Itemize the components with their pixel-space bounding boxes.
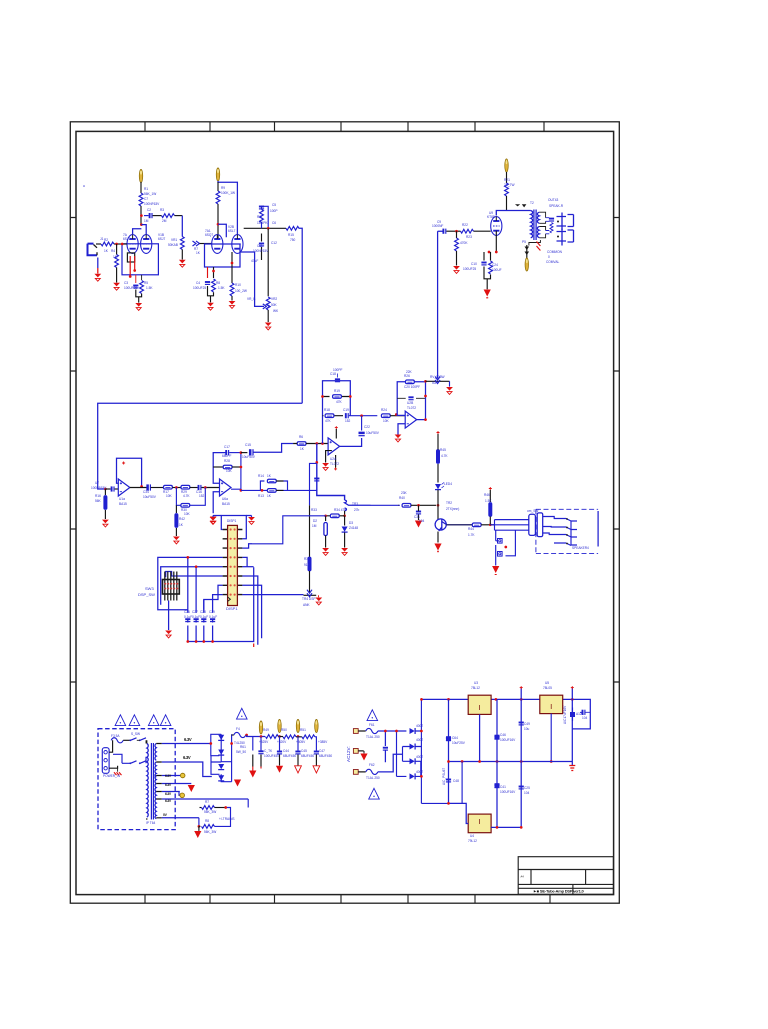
svg-text:KT88: KT88 xyxy=(487,215,495,219)
svg-text:680PF: 680PF xyxy=(222,454,231,458)
svg-text:1.7K: 1.7K xyxy=(468,533,475,537)
svg-text:S_SW: S_SW xyxy=(131,732,140,736)
svg-text:TR3: TR3 xyxy=(352,502,358,506)
svg-text:U7: U7 xyxy=(95,481,99,485)
svg-text:C44: C44 xyxy=(283,749,289,753)
svg-text:A/C_PSU67: A/C_PSU67 xyxy=(442,768,446,785)
svg-text:C20 100PF: C20 100PF xyxy=(404,385,420,389)
svg-text:1.5K: 1.5K xyxy=(485,499,492,503)
svg-text:56K_3W: 56K_3W xyxy=(204,830,216,834)
svg-text:SPEAK-R: SPEAK-R xyxy=(549,204,564,208)
svg-text:2K_7W: 2K_7W xyxy=(504,183,514,187)
svg-text:C27: C27 xyxy=(192,610,198,614)
svg-text:R40: R40 xyxy=(399,496,405,500)
svg-text:100PF: 100PF xyxy=(333,368,342,372)
svg-text:10uF25V: 10uF25V xyxy=(452,741,466,745)
svg-text:C24: C24 xyxy=(492,263,498,267)
svg-text:SPEAKER4: SPEAKER4 xyxy=(572,546,589,550)
svg-text:LED4: LED4 xyxy=(444,482,452,486)
svg-text:WK: WK xyxy=(273,309,279,313)
svg-text:R51: R51 xyxy=(300,728,306,732)
svg-text:R22: R22 xyxy=(462,223,468,227)
svg-text:C29: C29 xyxy=(209,610,215,614)
svg-text:10uF50V: 10uF50V xyxy=(143,495,157,499)
svg-text:BA15: BA15 xyxy=(119,502,127,506)
svg-text:C48: C48 xyxy=(453,779,459,783)
svg-text:C49: C49 xyxy=(524,722,530,726)
svg-text:100UF25: 100UF25 xyxy=(124,286,137,290)
svg-text:2TX(nnn): 2TX(nnn) xyxy=(446,507,459,511)
svg-text:RV_503W: RV_503W xyxy=(430,375,444,379)
svg-text:78L12: 78L12 xyxy=(471,686,480,690)
svg-text:470K: 470K xyxy=(460,241,468,245)
svg-text:0.1uF: 0.1uF xyxy=(184,615,192,619)
svg-text:100P: 100P xyxy=(270,209,277,213)
svg-text:10K: 10K xyxy=(166,494,173,498)
svg-text:10uF50V: 10uF50V xyxy=(242,455,256,459)
svg-text:C7: C7 xyxy=(144,197,148,201)
svg-text:R18: R18 xyxy=(324,408,330,412)
svg-text:47K: 47K xyxy=(325,419,332,423)
svg-text:U2B: U2B xyxy=(407,401,413,405)
svg-text:104: 104 xyxy=(524,791,530,795)
svg-text:C12: C12 xyxy=(271,241,277,245)
svg-text:R23: R23 xyxy=(466,235,472,239)
svg-text:TL072: TL072 xyxy=(407,406,416,410)
svg-text:68UF450: 68UF450 xyxy=(301,754,314,758)
svg-text:R8: R8 xyxy=(205,819,209,823)
svg-text:50K: 50K xyxy=(432,381,439,385)
svg-text:R13: R13 xyxy=(258,494,264,498)
svg-text:D3: D3 xyxy=(349,521,353,525)
svg-text:47K: 47K xyxy=(336,400,343,404)
svg-text:1M: 1M xyxy=(312,524,317,528)
svg-text:R24: R24 xyxy=(381,408,387,412)
svg-text:+405V: +405V xyxy=(296,740,306,744)
svg-text:C34: C34 xyxy=(143,490,149,494)
svg-text:C28: C28 xyxy=(200,610,206,614)
svg-text:C11: C11 xyxy=(257,244,263,248)
svg-text:4007: 4007 xyxy=(416,724,423,728)
svg-text:4007: 4007 xyxy=(416,738,423,742)
svg-text:104: 104 xyxy=(582,716,588,720)
svg-text:56K_1W: 56K_1W xyxy=(144,192,156,196)
svg-text:ANK: ANK xyxy=(303,603,310,607)
svg-text:18.5PK: 18.5PK xyxy=(257,221,268,225)
svg-text:100UF16V: 100UF16V xyxy=(500,738,516,742)
svg-text:6SQ7: 6SQ7 xyxy=(205,233,213,237)
svg-text:R49: R49 xyxy=(263,728,269,732)
svg-text:100NF63V: 100NF63V xyxy=(144,202,160,206)
svg-text:TR2: TR2 xyxy=(446,501,452,505)
svg-text:C18: C18 xyxy=(330,372,336,376)
svg-text:C_TK: C_TK xyxy=(264,749,273,753)
svg-text:C25: C25 xyxy=(524,786,530,790)
svg-text:U5: U5 xyxy=(545,681,549,685)
svg-text:F61: F61 xyxy=(369,723,375,727)
svg-text:10K: 10K xyxy=(383,419,390,423)
svg-text:R16: R16 xyxy=(95,494,101,498)
svg-text:R46: R46 xyxy=(484,493,490,497)
svg-text:C4: C4 xyxy=(196,281,200,285)
svg-text:100UF25: 100UF25 xyxy=(193,286,206,290)
svg-text:F62: F62 xyxy=(369,763,375,767)
svg-text:R14: R14 xyxy=(258,474,264,478)
svg-text:IP T64: IP T64 xyxy=(146,821,156,825)
svg-text:R45: R45 xyxy=(440,448,446,452)
svg-text:R34 47K: R34 47K xyxy=(334,508,347,512)
svg-text:10K: 10K xyxy=(226,469,233,473)
svg-text:SW3: SW3 xyxy=(145,586,154,591)
svg-text:100UF450: 100UF450 xyxy=(264,754,279,758)
svg-text:100K_1W: 100K_1W xyxy=(221,191,235,195)
svg-text:F4: F4 xyxy=(236,727,240,731)
svg-text:56K_3W: 56K_3W xyxy=(204,810,216,814)
svg-text:DISP1: DISP1 xyxy=(226,606,238,611)
svg-text:R9: R9 xyxy=(221,186,225,190)
svg-text:23K: 23K xyxy=(401,491,408,495)
svg-text:VR1: VR1 xyxy=(171,238,177,242)
svg-text:100NF63V: 100NF63V xyxy=(91,486,107,490)
svg-text:U2A: U2A xyxy=(330,457,337,461)
svg-text:COMVAL: COMVAL xyxy=(546,260,559,264)
svg-text:POWER_IN: POWER_IN xyxy=(103,774,121,778)
svg-text:R10: R10 xyxy=(235,283,241,287)
svg-text:C45: C45 xyxy=(301,749,307,753)
svg-text:50KAB: 50KAB xyxy=(168,243,178,247)
svg-text:TL072: TL072 xyxy=(330,462,339,466)
svg-text:U4: U4 xyxy=(470,834,474,838)
svg-text:om_SW: om_SW xyxy=(527,509,538,513)
svg-text:C15: C15 xyxy=(245,443,251,447)
svg-text:+/-TRAINS: +/-TRAINS xyxy=(219,817,235,821)
svg-text:R2: R2 xyxy=(104,238,108,242)
svg-text:TR4 DSP: TR4 DSP xyxy=(302,597,315,601)
svg-text:R39: R39 xyxy=(304,557,310,561)
svg-text:P5: P5 xyxy=(522,240,526,244)
svg-text:0.1uF: 0.1uF xyxy=(209,615,217,619)
svg-text:104: 104 xyxy=(419,519,425,523)
svg-text:C17: C17 xyxy=(224,445,230,449)
svg-text:R4: R4 xyxy=(111,249,115,253)
svg-text:C6: C6 xyxy=(272,221,276,225)
svg-text:AC12V:: AC12V: xyxy=(346,746,351,762)
svg-text:A/C17uF16V: A/C17uF16V xyxy=(563,705,567,724)
svg-text:4.7K: 4.7K xyxy=(183,494,190,498)
svg-text:1.5K: 1.5K xyxy=(218,286,225,290)
svg-text:1000NF: 1000NF xyxy=(432,224,443,228)
svg-text:COMMON: COMMON xyxy=(547,250,563,254)
svg-text:0: 0 xyxy=(548,255,550,259)
svg-text:C47: C47 xyxy=(319,749,325,753)
svg-text:0.1uF: 0.1uF xyxy=(192,615,200,619)
svg-text:R8: R8 xyxy=(216,281,220,285)
svg-text:5W_50: 5W_50 xyxy=(236,750,246,754)
svg-text:BA15: BA15 xyxy=(222,502,230,506)
svg-text:50K: 50K xyxy=(271,303,278,307)
svg-text:R5: R5 xyxy=(144,281,148,285)
svg-text:100UF25: 100UF25 xyxy=(463,267,476,271)
svg-text:R33: R33 xyxy=(311,508,317,512)
svg-text:6SJ7: 6SJ7 xyxy=(123,237,130,241)
svg-text:10K: 10K xyxy=(184,512,191,516)
svg-text:56K: 56K xyxy=(95,499,102,503)
svg-text:R3: R3 xyxy=(160,208,164,212)
svg-text:U1a: U1a xyxy=(119,497,125,501)
svg-text:T2: T2 xyxy=(530,201,534,205)
svg-text:6SJ7: 6SJ7 xyxy=(158,237,165,241)
svg-text:R6: R6 xyxy=(299,435,303,439)
svg-text:DSP_SW: DSP_SW xyxy=(138,592,155,597)
svg-text:+385V: +385V xyxy=(318,740,328,744)
svg-text:1M: 1M xyxy=(113,255,118,259)
svg-text:R21: R21 xyxy=(504,178,510,182)
svg-text:C26: C26 xyxy=(184,610,190,614)
svg-text:U6a: U6a xyxy=(222,497,228,501)
svg-text:R7: R7 xyxy=(205,800,209,804)
svg-text:6.3V: 6.3V xyxy=(184,737,192,742)
svg-text:R61: R61 xyxy=(240,745,246,749)
svg-text:Z4148: Z4148 xyxy=(349,526,358,530)
svg-text:1M: 1M xyxy=(144,219,149,223)
svg-text:68UF450: 68UF450 xyxy=(283,754,296,758)
svg-text:D2: D2 xyxy=(313,519,317,523)
svg-text:1.5K: 1.5K xyxy=(146,286,153,290)
svg-text:C10: C10 xyxy=(471,262,477,266)
svg-text:R15: R15 xyxy=(288,233,294,237)
svg-text:C46: C46 xyxy=(500,733,506,737)
svg-text:R26: R26 xyxy=(404,374,410,378)
svg-text:750: 750 xyxy=(290,238,296,242)
svg-text:OUT43: OUT43 xyxy=(548,198,559,202)
svg-text:R42: R42 xyxy=(179,517,185,521)
svg-text:R28: R28 xyxy=(224,459,230,463)
svg-text:152: 152 xyxy=(345,419,351,423)
svg-text:22K: 22K xyxy=(406,370,413,374)
svg-text:+525V: +525V xyxy=(259,740,269,744)
svg-text:100NF63V: 100NF63V xyxy=(253,249,269,253)
svg-text:VR_B: VR_B xyxy=(247,297,255,301)
svg-text:4007: 4007 xyxy=(416,770,423,774)
svg-text:u: u xyxy=(83,184,85,188)
svg-text:+420V: +420V xyxy=(277,740,287,744)
svg-text:T1AL 250: T1AL 250 xyxy=(366,776,380,780)
svg-text:R44: R44 xyxy=(468,527,474,531)
svg-text:C2: C2 xyxy=(147,208,151,212)
svg-text:100_2W: 100_2W xyxy=(235,289,247,293)
svg-text:C22: C22 xyxy=(364,425,370,429)
svg-text:R19: R19 xyxy=(334,389,340,393)
svg-text:6SL7: 6SL7 xyxy=(228,229,236,233)
svg-text:F3 5A: F3 5A xyxy=(111,734,120,738)
svg-text:0.1uF: 0.1uF xyxy=(200,615,208,619)
svg-text:U3: U3 xyxy=(474,681,478,685)
svg-text:R1: R1 xyxy=(144,187,148,191)
svg-text:A4: A4 xyxy=(521,875,525,879)
svg-text:R11: R11 xyxy=(257,215,263,219)
svg-text:91K: 91K xyxy=(304,563,311,567)
svg-text:27b: 27b xyxy=(354,508,360,512)
svg-text:VR2: VR2 xyxy=(271,297,277,301)
svg-text:10uF50V: 10uF50V xyxy=(366,431,380,435)
svg-text:4.7K: 4.7K xyxy=(441,454,448,458)
svg-text:10u: 10u xyxy=(524,727,530,731)
svg-text:4007: 4007 xyxy=(416,755,423,759)
svg-text:T1AL 250: T1AL 250 xyxy=(366,735,380,739)
svg-text:C19: C19 xyxy=(343,408,349,412)
svg-text:79L12: 79L12 xyxy=(468,839,477,843)
svg-text:C3: C3 xyxy=(124,281,128,285)
svg-text:78L05: 78L05 xyxy=(543,686,552,690)
svg-text:47uF: 47uF xyxy=(251,259,258,263)
svg-text:C64: C64 xyxy=(452,736,458,740)
svg-text:68UF450: 68UF450 xyxy=(319,754,332,758)
svg-text:►■ SE-Tube-Amp DSP ver1.0: ►■ SE-Tube-Amp DSP ver1.0 xyxy=(533,888,585,893)
svg-text:C5: C5 xyxy=(272,203,276,207)
svg-text:DISP1: DISP1 xyxy=(227,519,236,523)
svg-text:C41: C41 xyxy=(500,785,506,789)
svg-text:R50: R50 xyxy=(281,728,287,732)
svg-text:2M: 2M xyxy=(162,219,167,223)
svg-text:6.3V: 6.3V xyxy=(183,755,191,760)
svg-text:100UF: 100UF xyxy=(492,268,502,272)
svg-text:152: 152 xyxy=(199,494,205,498)
svg-text:100UF16V: 100UF16V xyxy=(500,790,516,794)
